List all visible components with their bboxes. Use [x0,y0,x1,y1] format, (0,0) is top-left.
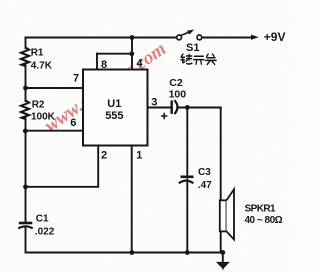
wire: pin 8 stub [96,54,98,70]
wire: ground stem [222,253,224,263]
wire: speaker branch [220,108,222,253]
svg-text:R2: R2 [32,100,45,111]
wire: pin 1 to ground rail [131,146,133,253]
svg-text:40 ~ 80Ω: 40 ~ 80Ω [245,215,283,226]
svg-text:U1: U1 [107,98,121,110]
wire: +9V feed after switch [202,37,252,39]
svg-text:7: 7 [73,73,79,85]
wire: pin 2 [26,146,99,187]
node: speaker/ground junction [220,250,225,255]
node: C2/C3 junction [185,105,190,110]
wire: pin 6 [26,130,84,132]
svg-text:.47: .47 [198,180,212,191]
wire: left rail [25,38,27,253]
wire: pin 3 output [148,107,221,109]
svg-text:R1: R1 [31,48,44,59]
node: C3/rail junction [185,250,190,255]
svg-text:8: 8 [101,59,107,71]
wire: top rail [26,37,177,39]
svg-text:S1: S1 [186,42,199,54]
wire: C3 branch [186,108,188,253]
svg-text:SPKR1: SPKR1 [245,204,276,215]
IC U1 555 [83,70,148,146]
svg-text:4.7K: 4.7K [31,60,53,71]
svg-text:C3: C3 [198,167,211,178]
wire: bottom ground rail [26,252,224,254]
speaker SPKR1 [220,189,234,239]
resistor R2 [21,101,29,120]
svg-text:555: 555 [105,110,123,122]
ground [216,262,230,271]
node: rail/supply junction [130,35,135,40]
+9V arrow [251,35,259,40]
capacitor C2 [172,100,178,114]
svg-text:.022: .022 [35,227,55,238]
svg-text:100: 100 [169,89,187,101]
svg-text:3: 3 [151,96,157,108]
node: pin1/rail junction [130,250,135,255]
svg-text:+9V: +9V [264,30,286,44]
svg-text:6: 6 [70,117,76,129]
node: pin6/R2/C1 junction [23,129,28,134]
resistor R1 [21,48,29,67]
node: pin7/R1/R2 junction [23,86,28,91]
wire: pin8 to pin4 link [97,53,132,55]
wire: pin 7 [26,87,84,89]
svg-text:1: 1 [136,149,142,161]
svg-text:C1: C1 [36,213,49,224]
wire: supply drop to pins 8,4 [131,38,133,70]
svg-text:4: 4 [137,58,144,70]
node: pin2/C1 junction [23,184,28,189]
label 键开关 (drawn strokes) [181,54,216,64]
capacitor C1 [18,223,32,228]
node: pin4/pin8 junction [129,51,134,56]
switch S1 [177,35,202,40]
plus sign of C2 [161,113,167,119]
capacitor C3 [179,177,194,183]
svg-text:100K: 100K [31,111,56,122]
svg-text:C2: C2 [169,77,183,89]
svg-text:2: 2 [101,149,107,161]
